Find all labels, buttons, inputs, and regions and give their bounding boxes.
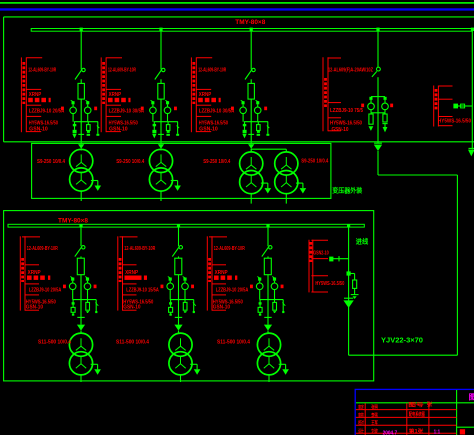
node: busbar tap, incoming bay bbox=[347, 224, 350, 227]
svg-text:GSN-10: GSN-10 bbox=[109, 126, 128, 132]
svg-text:12-AL609-BY-10R: 12-AL609-BY-10R bbox=[27, 246, 58, 252]
current transformer TA2-1a bbox=[71, 278, 74, 281]
earthing branch, bay 2 bbox=[177, 122, 179, 134]
wire: switch to fuse, bay 1 bbox=[80, 79, 82, 83]
svg-text:变压器外装: 变压器外装 bbox=[332, 185, 363, 194]
top border line bbox=[0, 2, 474, 4]
disconnect switch QS3 bbox=[252, 68, 255, 71]
cable terminal, incoming bay bbox=[344, 297, 353, 299]
transformer bay enclosure, section 1 bbox=[32, 143, 331, 198]
transformer T3 secondary winding bbox=[240, 171, 263, 194]
transformer T3 neutral earthing bbox=[261, 182, 268, 184]
svg-text:S11-500 10/0.4: S11-500 10/0.4 bbox=[38, 339, 71, 345]
node: busbar tap, bay 4 bbox=[376, 28, 379, 31]
svg-text:S11-500 10/0.4: S11-500 10/0.4 bbox=[217, 339, 250, 345]
transformer T6 secondary winding bbox=[169, 352, 192, 375]
svg-text:HY5WS-16.5/50: HY5WS-16.5/50 bbox=[315, 281, 344, 287]
fuse FU3 (XRNP) bbox=[248, 83, 254, 99]
svg-text:审核: 审核 bbox=[358, 412, 364, 419]
arrester F3b bbox=[257, 122, 259, 125]
svg-text:XRNP: XRNP bbox=[215, 270, 229, 276]
transformer T6 primary winding bbox=[169, 333, 192, 356]
transformer T1 primary winding bbox=[70, 149, 93, 172]
CT secondary mark right, bay 1 bbox=[94, 107, 97, 111]
svg-text:王军: 王军 bbox=[371, 420, 378, 427]
panel label column, bay 2-2 bbox=[117, 236, 119, 310]
table tick rows, bay 1 bbox=[26, 57, 42, 59]
disconnect switch QS2-2 bbox=[179, 246, 182, 249]
wire: fuse to CT group, bay 2-1 bbox=[80, 275, 82, 300]
wire: switch to fuse, bay 2-2 bbox=[178, 256, 180, 258]
transformer T4 neutral earthing bbox=[296, 182, 303, 184]
surge arrester F3a with ground bbox=[243, 124, 247, 126]
arrester F2-2a with ground bbox=[169, 302, 172, 304]
cable terminal, bay 2-3 bbox=[267, 300, 269, 325]
table tick rows, bay 2 bbox=[106, 57, 122, 59]
section 1 enclosure left edge bbox=[3, 17, 5, 142]
wire: right feeder drop bbox=[471, 31, 473, 150]
fuse rating blocks, bay 2 bbox=[108, 98, 113, 102]
wire: T5 LV tail bbox=[80, 375, 82, 382]
transformer T7 secondary winding bbox=[257, 352, 280, 375]
node: busbar tap, bay 1 bbox=[80, 28, 83, 31]
current transformer TA2-2b bbox=[183, 278, 186, 281]
transformer T5 primary winding bbox=[69, 333, 92, 356]
svg-text:S9-250 10/0.4: S9-250 10/0.4 bbox=[203, 159, 230, 165]
svg-text:2004.7: 2004.7 bbox=[383, 431, 398, 435]
wire: bottom header bar, bay 2 bbox=[154, 121, 178, 123]
wire: bay 2-2 drop bbox=[178, 227, 180, 246]
cable terminal, bay 2 bbox=[160, 99, 162, 144]
table tick rows, bay 3 bbox=[196, 57, 212, 59]
transformer T2 primary winding bbox=[149, 149, 172, 172]
disconnect switch QS4 bbox=[377, 67, 381, 71]
table ticks, bay 2-2 bbox=[120, 236, 138, 238]
wire: fuse to CT group, bay 2-3 bbox=[267, 275, 269, 300]
current transformer TA1b bbox=[86, 101, 89, 104]
CT secondary mark left, bay 4 bbox=[361, 104, 364, 108]
svg-text:LZZBJ9-10 20/5A: LZZBJ9-10 20/5A bbox=[216, 288, 249, 294]
svg-text:LZZBJ9-10 15/5A: LZZBJ9-10 15/5A bbox=[126, 288, 159, 294]
wire: T3 LV tail bbox=[250, 194, 252, 204]
arrester F2-1a with ground bbox=[72, 302, 75, 304]
node: busbar right end tap bbox=[471, 28, 474, 31]
svg-text:HY5WS-16.5/50: HY5WS-16.5/50 bbox=[438, 118, 471, 124]
svg-text:校对: 校对 bbox=[358, 420, 364, 427]
fuse FU1 (XRNP) bbox=[78, 83, 84, 99]
svg-text:GSN-10: GSN-10 bbox=[26, 305, 43, 311]
wire: T2 LV tail bbox=[160, 191, 162, 201]
current transformer TA2-3b bbox=[273, 278, 276, 281]
svg-text:GSN-10: GSN-10 bbox=[199, 126, 218, 132]
CT secondary mark left, bay 2 bbox=[141, 107, 144, 111]
svg-text:XRNP: XRNP bbox=[199, 92, 212, 98]
title block outer blue frame bbox=[355, 389, 474, 435]
svg-text:1:1: 1:1 bbox=[434, 430, 441, 435]
svg-text:第1张: 第1张 bbox=[409, 427, 424, 435]
panel label column, right feeder bbox=[433, 86, 435, 127]
svg-text:12-AL609-BY-10R: 12-AL609-BY-10R bbox=[124, 246, 155, 252]
node: busbar tap, bay 2-2 bbox=[177, 224, 180, 227]
wire: bay 4 drop bbox=[377, 31, 379, 68]
wire: bay 2 drop from busbar bbox=[160, 31, 162, 70]
svg-text:GSN2-10: GSN2-10 bbox=[313, 250, 329, 256]
cable run bottom horizontal bbox=[349, 354, 458, 356]
wire: switch to fuse, bay 2 bbox=[160, 79, 162, 83]
svg-text:TMY-80×8: TMY-80×8 bbox=[235, 19, 265, 26]
transformer T4 secondary winding bbox=[275, 171, 298, 194]
wire: bottom header bar, bay 2-1 bbox=[73, 299, 97, 301]
svg-text:GSN-10: GSN-10 bbox=[123, 305, 140, 311]
svg-text:GSN-10: GSN-10 bbox=[29, 126, 48, 132]
transformer T7 primary winding bbox=[257, 333, 280, 356]
svg-text:LZZBJ9-10 30/5A: LZZBJ9-10 30/5A bbox=[109, 109, 145, 115]
CT header bar, bay 4 bbox=[371, 96, 385, 98]
earthing branch, bay 1 bbox=[97, 122, 99, 134]
panel label column, bay 4 bbox=[322, 57, 324, 131]
node: busbar tap, bay 3 bbox=[250, 28, 253, 31]
current transformer TA1a bbox=[72, 101, 75, 104]
wire: incoming bay riser bbox=[348, 227, 350, 355]
CT secondary mark left, bay 2-1 bbox=[63, 285, 66, 289]
current transformer TA4a bbox=[369, 97, 372, 100]
earthing branch, bay 3 bbox=[267, 122, 269, 134]
CT secondary mark right, bay 4 bbox=[390, 104, 393, 108]
svg-text:S11-500 10/0.4: S11-500 10/0.4 bbox=[116, 339, 149, 345]
cable run YJV22-3x70 horizontal top bbox=[378, 174, 457, 176]
svg-text:XRNP: XRNP bbox=[28, 270, 42, 276]
disconnect switch QS2-1 bbox=[82, 246, 85, 249]
wire: bay 3 split feeder to T3/T4 bbox=[251, 148, 286, 150]
svg-text:LZZBJ9-10 20/5A: LZZBJ9-10 20/5A bbox=[29, 288, 62, 294]
node: busbar tap, bay 2 bbox=[159, 28, 162, 31]
10kV busbar W2 (TMY-80x8), section 2 bbox=[8, 224, 364, 227]
section 1 enclosure top edge bbox=[4, 16, 474, 18]
svg-text:12-AL609-BY-10R: 12-AL609-BY-10R bbox=[108, 68, 136, 74]
wire: bottom header bar, bay 2-2 bbox=[170, 299, 194, 301]
title block red row lines bbox=[356, 409, 457, 411]
fuse FU2-2 bbox=[175, 258, 182, 275]
transformer T5 neutral earthing bbox=[91, 363, 98, 365]
table ticks, incoming bay bbox=[311, 239, 328, 241]
CT secondary mark right, bay 3 bbox=[264, 107, 267, 111]
svg-text:12-AL609-BY-10R: 12-AL609-BY-10R bbox=[198, 68, 226, 74]
fuse FU2-1 bbox=[77, 258, 84, 275]
fuse rating blocks, bay 2-3 bbox=[214, 276, 219, 280]
current transformer TA2-1b bbox=[86, 278, 89, 281]
CT secondary mark right, bay 2-3 bbox=[281, 285, 284, 289]
current transformer TA2a bbox=[151, 101, 154, 104]
cable terminal, bay 1 bbox=[80, 99, 82, 144]
svg-text:李强: 李强 bbox=[371, 412, 378, 419]
svg-text:LZZBJ9-10 75/5: LZZBJ9-10 75/5 bbox=[330, 108, 363, 114]
voltage sensor spur bbox=[331, 258, 349, 260]
arrester F2-3b bbox=[274, 300, 276, 303]
transformer T2 neutral earthing bbox=[171, 180, 178, 182]
wire: bay 2-1 drop bbox=[80, 227, 82, 246]
earthing branch, bay 2-1 bbox=[95, 300, 97, 311]
current transformer TA2-2a bbox=[169, 278, 172, 281]
earthing branch, bay 2-3 bbox=[282, 300, 284, 311]
svg-text:GSN-10: GSN-10 bbox=[213, 305, 230, 311]
arrester F2-3a with ground bbox=[259, 302, 262, 304]
stamp mark bbox=[460, 429, 465, 434]
table ticks, bay 2-3 bbox=[209, 236, 227, 238]
wire: T7 LV tail bbox=[268, 375, 270, 382]
table ticks, right feeder bbox=[438, 85, 452, 87]
title block green column line bbox=[456, 390, 458, 435]
node: arrester tap bbox=[347, 271, 351, 275]
surge arrester F4b with ground bbox=[384, 113, 386, 114]
svg-text:张: 张 bbox=[427, 401, 434, 408]
wire: bottom header bar, bay 3 bbox=[244, 121, 268, 123]
panel label column, bay 2-1 bbox=[19, 236, 21, 310]
panel label column, bay 2 bbox=[100, 57, 102, 132]
panel label column, bay 2-3 bbox=[206, 236, 208, 310]
fuse FU2-3 bbox=[264, 258, 271, 275]
fuse rating blocks, bay 3 bbox=[198, 98, 203, 102]
CT secondary mark left, bay 2-2 bbox=[161, 285, 164, 289]
blue separator bar bbox=[0, 8, 474, 10]
cable run right vertical bbox=[456, 175, 458, 355]
svg-text:12-AL609(F)A-20AW/10Z: 12-AL609(F)A-20AW/10Z bbox=[328, 67, 373, 73]
transformer T4 primary winding bbox=[275, 152, 298, 175]
panel label column, bay 3 bbox=[190, 57, 192, 132]
current transformer TA4b bbox=[384, 97, 387, 100]
wire: bottom header bar, bay 2-3 bbox=[260, 299, 284, 301]
surge arrester F4a with ground bbox=[370, 113, 372, 114]
surge arrester branch, incoming bay bbox=[349, 273, 355, 275]
section 1 enclosure bottom edge bbox=[4, 141, 474, 143]
wire: T6 LV tail bbox=[180, 375, 182, 382]
arrester F2-2b bbox=[184, 300, 186, 303]
transformer T1 secondary winding bbox=[70, 168, 93, 191]
table ticks, bay 4 bbox=[328, 57, 341, 59]
live-display sensor connection bbox=[458, 105, 473, 107]
wire: bay 3 drop from busbar bbox=[250, 31, 252, 70]
wire: fuse to CT group, bay 2-2 bbox=[178, 275, 180, 300]
disconnect switch QS1 bbox=[82, 68, 85, 71]
svg-text:XRNP: XRNP bbox=[109, 92, 122, 98]
transformer T5 secondary winding bbox=[69, 352, 92, 375]
cable terminal, bay 4 bbox=[374, 142, 382, 144]
wire: switch to CT group, bay 4 bbox=[377, 77, 379, 143]
cable terminal, bay 2-2 bbox=[178, 300, 180, 325]
title block red column lines bbox=[364, 403, 366, 435]
svg-text:LZZBJ9-10 20/5A: LZZBJ9-10 20/5A bbox=[29, 109, 65, 115]
svg-text:XRNP: XRNP bbox=[29, 92, 42, 98]
wire: bay 1 drop from busbar bbox=[80, 31, 82, 70]
table ticks, bay 2-1 bbox=[22, 236, 40, 238]
current transformer TA3b bbox=[256, 101, 259, 104]
transformer T1 neutral earthing bbox=[91, 180, 98, 182]
fuse rating blocks, bay 2-1 bbox=[27, 276, 32, 280]
transformer T2 secondary winding bbox=[149, 168, 172, 191]
transformer T3 primary winding bbox=[240, 152, 263, 175]
CT secondary mark left, bay 1 bbox=[61, 107, 64, 111]
CT secondary mark right, bay 2 bbox=[174, 107, 177, 111]
CT secondary mark left, bay 3 bbox=[231, 107, 234, 111]
arrester F1b bbox=[87, 122, 89, 125]
fuse FU2 (XRNP) bbox=[158, 83, 164, 99]
CT secondary mark right, bay 2-2 bbox=[191, 285, 194, 289]
disconnect switch QS2-3 bbox=[269, 246, 272, 249]
disconnect switch QS2 bbox=[162, 68, 165, 71]
svg-text:12-AL609-BY-10R: 12-AL609-BY-10R bbox=[214, 246, 245, 252]
cable terminal, bay 3 bbox=[250, 99, 252, 144]
current transformer TA2b bbox=[166, 101, 169, 104]
svg-text:YJV22-3×70: YJV22-3×70 bbox=[381, 337, 423, 344]
svg-text:TMY-80×8: TMY-80×8 bbox=[58, 218, 88, 225]
svg-text:审定: 审定 bbox=[358, 404, 364, 411]
wire: switch to fuse, bay 2-3 bbox=[267, 256, 269, 258]
CT secondary mark left, bay 2-3 bbox=[250, 285, 253, 289]
svg-text:GSN-10: GSN-10 bbox=[332, 127, 349, 133]
fuse rating blocks, bay 1 bbox=[28, 98, 33, 102]
svg-text:设计: 设计 bbox=[358, 428, 364, 435]
svg-text:图号: 图号 bbox=[408, 401, 424, 408]
wire: T1 LV tail bbox=[80, 191, 82, 201]
svg-text:S9-250 10/0.4: S9-250 10/0.4 bbox=[37, 159, 65, 165]
svg-text:张明: 张明 bbox=[371, 404, 378, 411]
svg-text:XRNP: XRNP bbox=[125, 270, 139, 276]
transformer T7 neutral earthing bbox=[279, 363, 286, 365]
wire: switch to fuse, bay 2-1 bbox=[80, 256, 82, 258]
wire: cable down run, bay 4 bbox=[377, 151, 379, 175]
svg-text:S9-250 10/0.4: S9-250 10/0.4 bbox=[116, 159, 144, 165]
cable terminal, right feeder bbox=[469, 147, 474, 149]
fuse rating blocks, bay 2-2 bbox=[125, 276, 142, 280]
current transformer TA2-3a bbox=[258, 278, 261, 281]
CT secondary mark right, bay 2-1 bbox=[94, 285, 97, 289]
earthing branch, bay 2-2 bbox=[193, 300, 195, 311]
svg-text:HY5WS-16.5/50: HY5WS-16.5/50 bbox=[330, 121, 362, 127]
wire: switch to fuse, bay 3 bbox=[250, 79, 252, 83]
cable terminal, bay 2-1 bbox=[80, 300, 82, 325]
svg-text:刘波: 刘波 bbox=[371, 428, 378, 435]
svg-text:配电系统图: 配电系统图 bbox=[409, 410, 425, 418]
surge arrester F2a with ground bbox=[153, 124, 157, 126]
10kV busbar W1 (TMY-80x8), section 1 bbox=[31, 29, 472, 32]
title block green sub line bbox=[457, 426, 474, 428]
arrester F2-1b bbox=[87, 300, 89, 303]
node: busbar tap, bay 2-3 bbox=[266, 224, 269, 227]
title block green header line bbox=[356, 402, 474, 404]
section 2 enclosure bbox=[4, 211, 374, 381]
svg-text:LZZBJ9-10 30/5A: LZZBJ9-10 30/5A bbox=[199, 109, 235, 115]
svg-text:12-AL609-BY-10R: 12-AL609-BY-10R bbox=[28, 68, 56, 74]
current transformer TA3a bbox=[242, 101, 245, 104]
panel label column, incoming bay bbox=[308, 240, 310, 293]
svg-text:S9-250 10/0.4: S9-250 10/0.4 bbox=[301, 158, 328, 164]
wire: bottom header bar, bay 1 bbox=[74, 121, 98, 123]
svg-text:进线: 进线 bbox=[356, 237, 369, 246]
wire: T4 LV tail bbox=[285, 194, 287, 204]
node: busbar tap, bay 2-1 bbox=[79, 224, 82, 227]
arrester F2b bbox=[167, 122, 169, 125]
svg-text:图: 图 bbox=[469, 392, 474, 401]
panel label column, bay 1 bbox=[20, 57, 22, 132]
transformer T6 neutral earthing bbox=[190, 363, 197, 365]
wire: bay 2-3 drop bbox=[267, 227, 269, 246]
wire: lower header, bay 4 bbox=[371, 112, 385, 114]
surge arrester F1a with ground bbox=[73, 124, 77, 126]
